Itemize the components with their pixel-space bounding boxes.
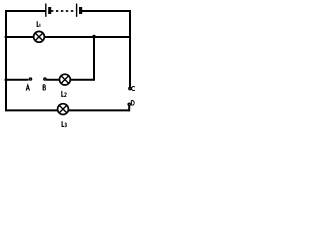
- label A: [26, 85, 29, 91]
- battery dashed link dash 4: [71, 10, 74, 12]
- lamp L2: [60, 74, 71, 85]
- wire left vertical: [5, 10, 7, 111]
- battery cell 1 short thick plate: [48, 7, 51, 14]
- wire battery to top right corner: [82, 10, 132, 12]
- lamp L3: [58, 104, 69, 115]
- battery cell 2 short thick plate: [79, 7, 82, 14]
- wire top left to battery: [5, 10, 46, 12]
- junction row2 middle: [92, 35, 95, 38]
- battery cell 2 long plate: [76, 4, 78, 17]
- lamp L1: [34, 31, 45, 42]
- wire right vertical down to C: [129, 10, 131, 87]
- terminal B: [44, 78, 46, 80]
- battery dashed link dash 2: [61, 10, 63, 12]
- wire middle vertical from row2 down to row3 corner: [93, 37, 95, 81]
- label C: [132, 87, 135, 91]
- junction row2 left: [5, 36, 8, 39]
- label D: [131, 101, 134, 106]
- battery dashed link dash 3: [66, 10, 68, 12]
- wire bottom row (L3 branch): [6, 109, 129, 111]
- terminal D: [128, 103, 130, 105]
- battery dashed link dash 1: [56, 10, 58, 12]
- junction row3 left: [5, 78, 8, 81]
- wire row3 left to A: [6, 79, 29, 81]
- battery stub after cell 1: [51, 10, 53, 12]
- wire bottom corner up to D: [128, 106, 130, 112]
- battery cell 1 long plate: [45, 4, 47, 17]
- label L2: [62, 91, 67, 97]
- terminal C: [129, 88, 131, 90]
- wire row2 across (L1 branch): [6, 36, 130, 38]
- wire B to L2 to corner: [46, 79, 94, 81]
- label B: [43, 85, 45, 91]
- terminal A: [29, 78, 31, 80]
- label L3: [62, 121, 66, 127]
- label L1: [37, 21, 40, 27]
